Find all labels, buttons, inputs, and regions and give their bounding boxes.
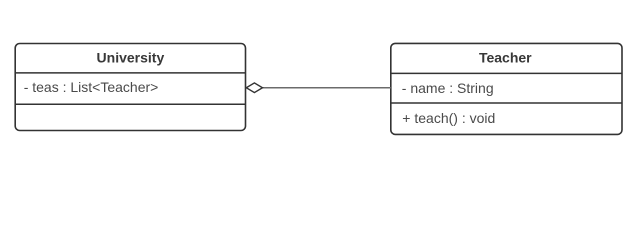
Teacher compartment separator 1: [391, 72, 622, 74]
svg-text:University: University: [97, 50, 165, 66]
class University box: [15, 44, 245, 131]
svg-text:Teacher: Teacher: [479, 50, 532, 66]
svg-text:- teas : List<Teacher>: - teas : List<Teacher>: [24, 79, 159, 95]
class Teacher box: [391, 43, 622, 134]
Teacher compartment separator 2: [391, 102, 622, 104]
University compartment separator 2: [15, 103, 245, 105]
svg-text:- name : String: - name : String: [402, 80, 494, 96]
svg-text:+ teach() : void: + teach() : void: [402, 110, 495, 126]
association wire University-Teacher: [263, 87, 391, 89]
aggregation diamond (hollow) at University end: [246, 83, 262, 93]
University compartment separator 1: [15, 72, 245, 74]
